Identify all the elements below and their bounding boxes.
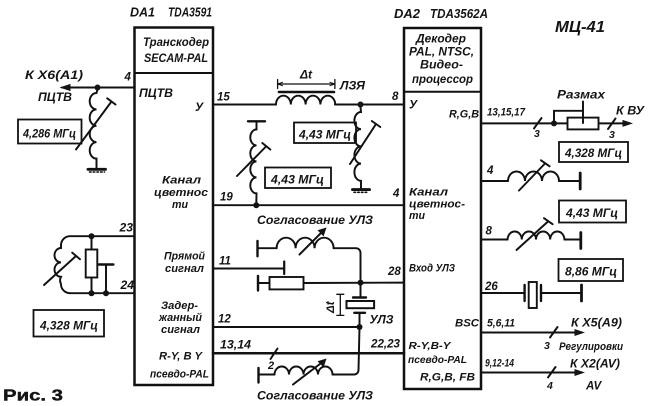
inductor L5 matching coil top (258, 228, 334, 255)
svg-text:Прямой: Прямой (164, 251, 205, 263)
capacitor plate over L4 (248, 121, 265, 129)
svg-text:Размах: Размах (557, 90, 606, 102)
svg-text:Транскодер: Транскодер (143, 35, 209, 49)
svg-text:Видео-: Видео- (420, 58, 463, 72)
svg-text:BSC: BSC (455, 318, 480, 330)
capacitor plate C3 (256, 241, 258, 256)
svg-text:УЛЗ: УЛЗ (370, 315, 395, 327)
dt vertical dimension (337, 294, 344, 315)
label box 8,86 MHz (559, 259, 624, 281)
svg-text:PAL, NTSC,: PAL, NTSC, (409, 45, 474, 59)
wire L5 to node (334, 248, 361, 282)
IC DA1 box (135, 28, 214, 386)
svg-text:24: 24 (119, 280, 134, 292)
svg-text:Рис. 3: Рис. 3 (3, 388, 63, 405)
svg-text:Регулировки: Регулировки (559, 341, 623, 353)
capacitor plate C4 (257, 276, 259, 291)
junction node pin28 wire (358, 280, 364, 286)
wire pin12 DA1 (213, 326, 360, 328)
svg-text:12: 12 (218, 314, 231, 326)
svg-text:Согласование УЛЗ: Согласование УЛЗ (257, 215, 374, 227)
dt dimension arrows (278, 80, 335, 89)
svg-text:ПЦТВ: ПЦТВ (139, 88, 173, 100)
svg-text:3: 3 (609, 129, 615, 141)
svg-text:3: 3 (534, 128, 540, 140)
svg-text:R,G,B: R,G,B (449, 109, 479, 121)
svg-text:псевдо-PAL: псевдо-PAL (408, 354, 467, 366)
wire R,G,B out 13,15,17 (481, 118, 633, 129)
svg-text:22,23: 22,23 (370, 339, 401, 351)
ground under L1 (88, 169, 106, 172)
svg-text:процессор: процессор (412, 72, 473, 86)
inductor L2 variable (4,328 MHz tank) (44, 245, 80, 293)
label box 4,43 MHz mid2 (265, 168, 331, 189)
svg-text:23: 23 (118, 223, 133, 235)
potentiometer R3 (Razmah) (554, 102, 599, 130)
wire pin4 DA1 to K X6(A1) (60, 84, 135, 91)
svg-text:К Х2(AV): К Х2(AV) (570, 359, 620, 371)
delay line ULZ symbol (347, 283, 375, 327)
delay line LZYa coil (276, 96, 335, 105)
svg-text:Δt: Δt (299, 68, 313, 82)
wire pin4 DA2 coil (481, 160, 580, 190)
wire BSC out 5,6,11 (481, 327, 585, 338)
wire R,G,B,FB out 9,12-14 (481, 367, 585, 378)
resistor R1 in tank (86, 236, 98, 293)
svg-text:DA1: DA1 (130, 5, 155, 20)
svg-text:псевдо-PAL: псевдо-PAL (150, 369, 209, 381)
resistor R2 (258, 277, 404, 289)
wire pin8 DA2 coil (481, 218, 581, 250)
junction dots tank (89, 233, 110, 296)
wire ULZ down leg (333, 327, 360, 375)
junction node pin19 wire (253, 202, 259, 208)
svg-text:5,6,11: 5,6,11 (487, 318, 515, 330)
svg-text:8: 8 (486, 226, 493, 238)
svg-text:К Х5(А9): К Х5(А9) (571, 318, 622, 330)
svg-text:4,286 МГц: 4,286 МГц (22, 129, 76, 141)
slash bus-2 mark (271, 349, 278, 360)
svg-text:4,328 МГц: 4,328 МГц (564, 148, 622, 160)
inductor L6 matching coil bottom (259, 359, 333, 385)
svg-text:AV: AV (585, 381, 602, 393)
wire pin15 DA1 to pin8 DA2 with delay line (213, 104, 404, 106)
svg-text:8,86 МГц: 8,86 МГц (565, 267, 617, 279)
wire pin13,14 DA1 to pin22,23 DA2 (213, 352, 404, 355)
svg-text:Задер-: Задер- (161, 300, 198, 312)
svg-text:ти: ти (172, 199, 188, 211)
label box 4,286 MHz (18, 120, 82, 144)
ground bar pin4 coil (579, 173, 582, 189)
svg-text:Декодер: Декодер (415, 32, 466, 46)
svg-text:У: У (195, 100, 204, 114)
svg-text:4: 4 (486, 165, 494, 177)
ground bar crystal (580, 285, 583, 301)
ground under L3 (353, 190, 370, 193)
svg-text:DA2: DA2 (394, 6, 421, 21)
wire pin23 DA1 (61, 236, 135, 245)
svg-text:Канал: Канал (162, 175, 201, 187)
svg-text:ПЦТВ: ПЦТВ (38, 92, 72, 104)
svg-text:Δt: Δt (325, 300, 337, 314)
svg-text:15: 15 (217, 92, 230, 104)
svg-text:4,328 МГц: 4,328 МГц (39, 321, 98, 333)
svg-text:жанный: жанный (158, 312, 202, 324)
svg-text:У: У (409, 98, 418, 112)
capacitor plate C5 (257, 368, 259, 383)
svg-text:4: 4 (546, 380, 553, 392)
svg-text:TDA3591: TDA3591 (168, 5, 212, 20)
svg-text:13,15,17: 13,15,17 (487, 107, 526, 119)
node junction on pin4 wire (95, 85, 101, 91)
svg-text:4,43 МГц: 4,43 МГц (565, 208, 618, 220)
ground bar pin8 coil (579, 233, 582, 249)
svg-text:13,14: 13,14 (220, 340, 252, 352)
svg-text:4,43 МГц: 4,43 МГц (270, 175, 324, 187)
wire pin11 DA1 (213, 262, 284, 275)
svg-text:R,G,B, FB: R,G,B, FB (420, 372, 475, 384)
svg-text:4: 4 (392, 188, 400, 200)
IC DA2 box (404, 28, 481, 389)
crystal ZQ1 8.86MHz (481, 282, 582, 308)
svg-text:26: 26 (484, 281, 498, 293)
svg-text:Вход УЛЗ: Вход УЛЗ (409, 263, 455, 275)
junction node pin8 wire (358, 102, 364, 108)
svg-text:ти: ти (409, 210, 425, 222)
junction node pot (551, 120, 557, 126)
inductor L4 variable (left 4,43) (237, 129, 270, 205)
svg-text:3: 3 (544, 340, 550, 352)
svg-text:2: 2 (267, 360, 274, 372)
label box 4,43 MHz right (559, 201, 626, 223)
label box 4,328 MHz left (34, 310, 105, 337)
svg-text:R-Y,B-Y: R-Y,B-Y (409, 340, 452, 352)
svg-text:4,43 МГц: 4,43 МГц (298, 130, 351, 142)
svg-text:28: 28 (387, 266, 401, 278)
svg-text:МЦ-41: МЦ-41 (555, 19, 605, 36)
svg-text:9,12-14: 9,12-14 (485, 358, 514, 370)
junction node pin12 wire (357, 324, 363, 330)
wire pin19 DA1 to pin4 DA2 (213, 204, 404, 206)
wire pin24 DA1 (70, 292, 135, 294)
svg-text:ЛЗЯ: ЛЗЯ (339, 81, 366, 93)
svg-text:11: 11 (219, 256, 231, 268)
svg-text:К Х6(А1): К Х6(А1) (25, 70, 83, 82)
svg-text:сигнал: сигнал (161, 324, 200, 336)
svg-text:цветнос: цветнос (154, 187, 208, 199)
svg-text:Согласование УЛЗ: Согласование УЛЗ (257, 391, 374, 403)
svg-text:сигнал: сигнал (165, 263, 204, 275)
svg-text:Канал: Канал (409, 187, 448, 199)
svg-text:8: 8 (392, 91, 399, 103)
svg-text:К ВУ: К ВУ (616, 106, 645, 118)
svg-text:R-Y, B Y: R-Y, B Y (159, 351, 204, 363)
inductor L1 variable (4,286 MHz) (76, 90, 116, 168)
svg-text:TDA3562A: TDA3562A (430, 6, 488, 21)
svg-text:цветнос-: цветнос- (409, 199, 465, 211)
label box 4,43 MHz mid1 (294, 123, 356, 144)
delay line core bar (279, 91, 334, 94)
capacitor C1 in tank (99, 265, 114, 294)
label box 4,328 MHz right (559, 142, 628, 162)
svg-text:SECAM-PAL: SECAM-PAL (144, 51, 208, 65)
inductor L3 variable (right 4,43) (350, 107, 380, 188)
svg-text:19: 19 (220, 192, 233, 204)
svg-text:4: 4 (124, 72, 132, 84)
